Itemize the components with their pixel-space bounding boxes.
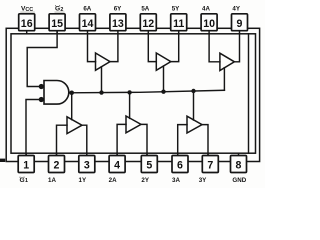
pin 2 box xyxy=(49,156,65,173)
label G2 pin15 xyxy=(55,6,63,13)
buffer 6A amp triangle xyxy=(96,53,111,70)
label 6A pin14 xyxy=(83,6,91,13)
buffer 5A amp triangle xyxy=(156,53,171,70)
svg-text:15: 15 xyxy=(51,18,63,30)
pin 13 box xyxy=(110,14,126,31)
wire input pin6 to buffer xyxy=(178,125,187,156)
junction node bus-buffer5 xyxy=(191,89,195,93)
pin 11 box xyxy=(171,14,187,31)
wire enable rise to upper buffer 1 xyxy=(101,67,103,93)
svg-text:2A: 2A xyxy=(109,177,117,184)
buffer 4A amp triangle xyxy=(220,53,235,70)
wire input pin4 to buffer xyxy=(117,124,126,155)
svg-text:7: 7 xyxy=(207,160,213,172)
pin 12 box xyxy=(140,14,156,31)
wire enable rise to upper buffer 3 xyxy=(223,68,225,91)
junction node bus-buffer4 xyxy=(127,90,131,94)
AND input bubble (pin15 side) xyxy=(39,84,44,89)
svg-text:11: 11 xyxy=(173,18,184,30)
svg-text:3: 3 xyxy=(84,160,90,172)
label 5A pin12 xyxy=(141,6,149,13)
pin 4 box xyxy=(109,156,125,173)
wire enable drop to lower buffer 4 xyxy=(71,93,73,120)
wire output buffer to pin3 xyxy=(82,125,87,155)
pin 14 box xyxy=(80,14,96,31)
wire enable drop to lower buffer 5 xyxy=(129,92,131,118)
pin 7 box xyxy=(202,156,218,173)
wire G2 from pin 15 to AND input xyxy=(27,31,57,87)
buffer 2A amp triangle xyxy=(126,116,141,133)
pin stubs bottom xyxy=(26,153,238,155)
wire input pin14 to buffer xyxy=(88,34,96,62)
label 1A pin2 xyxy=(48,177,56,184)
svg-text:9: 9 xyxy=(237,18,243,30)
pin 15 box xyxy=(49,14,65,31)
enable bus wire xyxy=(69,90,225,93)
junction node bus-buffer1 xyxy=(99,90,103,94)
label GND pin8 xyxy=(232,177,246,184)
svg-text:5A: 5A xyxy=(141,6,149,13)
pin 8 box xyxy=(231,156,247,173)
wire output buffer to pin9 xyxy=(234,34,239,62)
wire input pin10 to buffer xyxy=(209,34,220,62)
svg-text:2: 2 xyxy=(54,160,60,172)
enable AND gate U1 xyxy=(44,81,69,105)
pin 5 box xyxy=(141,156,157,173)
svg-text:G: G xyxy=(20,177,25,184)
label 2A pin4 xyxy=(109,177,117,184)
svg-text:5: 5 xyxy=(146,160,152,172)
pin 10 box xyxy=(201,14,217,31)
label 2Y pin5 xyxy=(141,177,149,184)
svg-text:4Y: 4Y xyxy=(232,6,240,13)
junction node AND output xyxy=(69,91,74,96)
inner package outline xyxy=(11,34,256,153)
svg-text:1: 1 xyxy=(25,178,28,184)
svg-text:1Y: 1Y xyxy=(79,177,87,184)
svg-text:4A: 4A xyxy=(202,6,210,13)
buffer 3A amp triangle xyxy=(187,116,202,133)
svg-text:G: G xyxy=(55,6,60,13)
label underline smudge VCC xyxy=(20,12,35,13)
pin stubs top xyxy=(27,31,240,34)
svg-text:6A: 6A xyxy=(83,6,91,13)
buffer 1A amp triangle xyxy=(67,117,82,134)
wire output buffer to pin7 xyxy=(202,125,208,156)
svg-text:6Y: 6Y xyxy=(114,6,122,13)
outer package outline xyxy=(6,28,259,161)
label 3Y pin7 xyxy=(199,177,207,184)
svg-text:16: 16 xyxy=(21,18,33,30)
pin 9 box xyxy=(232,14,248,31)
pin 3 box xyxy=(79,156,95,173)
svg-text:12: 12 xyxy=(142,18,154,30)
svg-text:3Y: 3Y xyxy=(199,177,207,184)
wire right-side vertical net xyxy=(248,34,250,153)
label 6Y pin13 xyxy=(114,6,122,13)
wire enable drop to lower buffer 6 xyxy=(193,91,195,120)
wire enable rise to upper buffer 2 xyxy=(163,66,165,92)
pin 6 box xyxy=(172,156,188,173)
svg-text:5Y: 5Y xyxy=(172,6,180,13)
wire output buffer to pin5 xyxy=(141,124,147,155)
svg-text:4: 4 xyxy=(114,160,120,172)
wire output buffer to pin11 xyxy=(171,34,179,62)
svg-text:14: 14 xyxy=(82,18,94,30)
label 4Y pin9 xyxy=(232,6,240,13)
label 3A pin6 xyxy=(172,177,180,184)
svg-text:13: 13 xyxy=(112,18,124,30)
wire output buffer to pin13 xyxy=(110,34,118,62)
svg-text:GND: GND xyxy=(232,177,246,184)
label 5Y pin11 xyxy=(172,6,180,13)
junction node bus-buffer2 xyxy=(161,90,165,94)
svg-text:10: 10 xyxy=(203,18,215,30)
pin 16 box xyxy=(19,14,35,31)
svg-text:6: 6 xyxy=(177,160,183,172)
label VCC pin16 xyxy=(21,6,33,14)
wire input pin12 to buffer xyxy=(148,34,156,62)
label 1Y pin3 xyxy=(79,177,87,184)
scan artifact mark left edge xyxy=(0,159,5,162)
svg-text:2Y: 2Y xyxy=(141,177,149,184)
svg-text:8: 8 xyxy=(236,160,242,172)
svg-text:1A: 1A xyxy=(48,177,56,184)
pin 1 box xyxy=(18,156,34,173)
label underline smudge G2 xyxy=(55,12,65,13)
svg-text:1: 1 xyxy=(23,160,29,172)
label 4A pin10 xyxy=(202,6,210,13)
wire G1 from AND input to pin 1 xyxy=(26,100,39,156)
AND input bubble (pin1 side) xyxy=(39,97,44,102)
wire input pin2 to buffer xyxy=(57,125,68,155)
label G1 pin1 xyxy=(20,177,29,184)
svg-text:3A: 3A xyxy=(172,177,180,184)
